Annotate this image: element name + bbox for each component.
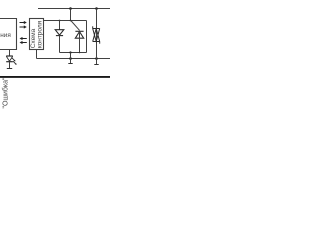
data arrow left 2	[20, 41, 27, 44]
junction dot top bus / TVS wire	[95, 7, 98, 10]
wire: right thyristor to bottom node	[79, 32, 81, 53]
junction dot stub/gate node	[70, 20, 72, 22]
terminal bar output stub	[68, 63, 72, 65]
junction dot bottom node / right thyristor	[79, 52, 81, 54]
LED light arrow 2	[13, 61, 17, 65]
svg-text:Схема управления: Схема управления	[0, 32, 11, 39]
wire: LED anode from U1	[9, 50, 11, 57]
data arrow left 1	[20, 37, 27, 40]
wire: LED cathode down	[9, 62, 11, 69]
wire: right side of thyristor loop	[86, 21, 88, 53]
wire: gate node top	[44, 20, 87, 22]
wire: bottom bus	[37, 58, 111, 60]
wire: output stub down	[70, 53, 72, 64]
svg-text:контроля: контроля	[36, 20, 43, 48]
thyristor VS2 (pointing up)	[75, 31, 83, 38]
block U2: Схема контроля	[30, 19, 44, 50]
data arrow right 1	[20, 21, 27, 24]
wire: U2 to bottom bus	[36, 50, 38, 59]
wire: left thyristor cathode to bottom node	[59, 36, 61, 53]
TVS RU1 (bidirectional suppressor)	[93, 26, 100, 43]
wire: stub from top bus	[70, 9, 72, 21]
LED light arrow 1	[12, 58, 16, 62]
thyristor VS1 (pointing down)	[55, 30, 64, 36]
junction dot gate node	[59, 20, 61, 22]
terminal bar TVS branch	[94, 64, 98, 66]
junction dot bottom node / output stub	[69, 51, 71, 53]
terminal bar LED branch	[7, 68, 12, 70]
junction dot bottom bus / output stub	[69, 57, 72, 60]
wire: diagonal gate line	[71, 21, 80, 31]
block U1: control circuit (cropped at left edge)	[0, 19, 17, 50]
wire: TVS branch	[96, 9, 98, 65]
wire: top bus	[38, 8, 110, 10]
junction dot top bus / stub	[69, 7, 72, 10]
separator border line	[0, 76, 110, 78]
data arrow right 2	[20, 25, 27, 28]
wire: bottom node of thyristor loop	[60, 52, 87, 54]
svg-text:"Ошибка": "Ошибка"	[2, 77, 10, 109]
wire: left thyristor anode drop	[59, 21, 61, 31]
junction dot bottom bus / TVS wire	[95, 57, 98, 60]
LED VD1 (pointing down)	[6, 56, 13, 62]
